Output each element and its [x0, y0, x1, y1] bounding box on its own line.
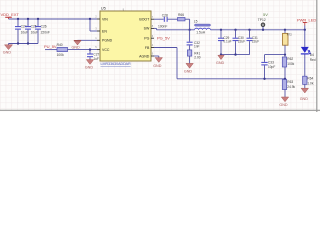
pin SW: [151, 27, 154, 29]
sheet background: [0, 0, 320, 112]
regulator IC U5: [95, 5, 154, 66]
LED D4: [301, 47, 316, 62]
capacitor C31: [247, 30, 260, 55]
wire VCC right: [68, 49, 98, 51]
svg-text:GND: GND: [216, 61, 225, 65]
wire PGND: [78, 39, 98, 41]
sheet border right: [316, 0, 318, 112]
node C25 top: [27, 18, 29, 20]
wire to C33: [265, 54, 286, 56]
svg-text:TP12: TP12: [258, 18, 266, 22]
svg-text:1uF: 1uF: [93, 57, 99, 61]
svg-text:GND: GND: [72, 46, 81, 50]
node C29: [220, 29, 222, 31]
wire FB route: [154, 47, 177, 49]
svg-text:22uF: 22uF: [238, 40, 245, 44]
svg-text:EN: EN: [102, 29, 107, 33]
svg-text:LMR33630ADDAR: LMR33630ADDAR: [101, 62, 132, 66]
pin VCC: [97, 49, 100, 51]
wire SW: [154, 27, 157, 29]
svg-text:R66: R66: [178, 13, 184, 17]
capacitor C29: [218, 30, 232, 55]
capacitor C33: [261, 55, 275, 79]
svg-text:VCC: VCC: [102, 48, 110, 52]
ground input: [3, 44, 13, 55]
svg-text:1.0k: 1.0k: [307, 82, 313, 86]
svg-text:5V: 5V: [263, 12, 268, 17]
node EN tap: [89, 18, 91, 20]
svg-text:C28: C28: [162, 14, 168, 18]
svg-text:2.00: 2.00: [194, 55, 200, 59]
node C33 / FB wire: [263, 78, 265, 80]
svg-text:C26: C26: [41, 25, 47, 29]
resistor R63: [282, 80, 295, 98]
wire bottom bus: [9, 43, 39, 45]
power port VDD_EXT: [1, 12, 20, 19]
svg-text:R40: R40: [57, 43, 63, 47]
pin PGND: [97, 39, 100, 41]
svg-text:GND: GND: [279, 103, 288, 107]
svg-text:BOOT: BOOT: [139, 18, 150, 22]
svg-text:R63: R63: [287, 80, 293, 84]
svg-text:Red: Red: [310, 58, 316, 62]
svg-text:PGND: PGND: [102, 39, 113, 43]
svg-text:PG: PG: [144, 37, 149, 41]
svg-text:10pF: 10pF: [268, 65, 275, 69]
node C26 top: [37, 18, 39, 20]
svg-text:220nF: 220nF: [41, 30, 50, 34]
inductor L5: [194, 20, 211, 35]
ground PGND: [72, 41, 82, 50]
svg-text:1nF: 1nF: [194, 45, 200, 49]
svg-text:R62: R62: [287, 57, 293, 61]
svg-text:24.9k: 24.9k: [287, 85, 295, 89]
ground snubber: [184, 63, 193, 73]
svg-text:VDD_EXT: VDD_EXT: [1, 12, 20, 17]
pin AGND: [151, 55, 154, 57]
svg-text:L5: L5: [194, 20, 198, 24]
svg-text:C27: C27: [93, 52, 99, 56]
pin VIN: [97, 18, 100, 20]
svg-text:10uF: 10uF: [21, 30, 29, 34]
svg-text:GND: GND: [153, 64, 162, 68]
sheet border bottom: [0, 109, 320, 111]
testpoint TP12: [258, 12, 268, 31]
ground LED: [300, 88, 309, 101]
svg-text:PU_5V: PU_5V: [44, 44, 57, 49]
svg-text:R72: R72: [287, 32, 292, 36]
wire VIN top bus: [9, 18, 98, 20]
wire VCC left: [45, 49, 57, 51]
wire LED anode: [304, 30, 306, 47]
svg-text:PWR_LED: PWR_LED: [297, 18, 316, 23]
capacitor C27: [87, 50, 99, 62]
svg-text:FB: FB: [145, 46, 150, 50]
pin BOOT: [151, 18, 154, 20]
wire AGND: [154, 55, 159, 57]
svg-text:GND: GND: [300, 97, 309, 101]
node VCC/C27: [89, 48, 91, 50]
ground divider: [279, 97, 288, 107]
node C30: [234, 29, 236, 31]
resistor R62: [282, 57, 294, 80]
snubber resistor R41: [187, 50, 200, 64]
svg-text:U5: U5: [101, 5, 107, 10]
resistor R66 boot: [178, 13, 186, 21]
node LED rail: [304, 29, 306, 31]
pin EN: [97, 30, 100, 32]
resistor R72 yellow: [283, 30, 293, 57]
resistor R64: [303, 76, 314, 88]
wire output caps gnd bus: [221, 54, 250, 56]
ground AGND: [153, 58, 162, 68]
svg-text:SW: SW: [144, 27, 150, 31]
svg-text:100nF: 100nF: [158, 24, 167, 28]
svg-text:10uF: 10uF: [31, 30, 39, 34]
capacitor C26: [35, 19, 50, 44]
ground C27: [85, 60, 94, 70]
resistor R40: [57, 43, 68, 57]
node C31: [248, 29, 250, 31]
svg-text:0.1uF: 0.1uF: [223, 40, 231, 44]
net label PWR_LED: [297, 18, 316, 30]
wire EN tap: [89, 19, 91, 31]
svg-text:GND: GND: [184, 69, 193, 73]
capacitor C28: [158, 14, 168, 29]
svg-text:AGND: AGND: [139, 54, 150, 58]
svg-text:22uF: 22uF: [252, 40, 259, 44]
svg-text:PG_5V: PG_5V: [157, 35, 170, 40]
wire LED cathode: [304, 55, 306, 77]
capacitor C30: [233, 30, 246, 55]
wire BOOT: [154, 18, 164, 20]
pin FB: [151, 47, 154, 49]
svg-text:R64: R64: [307, 77, 313, 81]
svg-text:100k: 100k: [287, 62, 294, 66]
capacitor C24: [15, 19, 28, 44]
snubber capacitor C32: [187, 30, 200, 50]
svg-text:1.5uH: 1.5uH: [196, 31, 205, 35]
svg-text:GND: GND: [85, 66, 94, 70]
pin PG: [151, 37, 154, 39]
svg-text:VIN: VIN: [102, 17, 108, 21]
ground output caps: [216, 53, 225, 64]
wire VOUT rail: [211, 29, 305, 31]
wire boot to SW: [185, 18, 190, 20]
svg-text:GND: GND: [3, 51, 12, 55]
node divider top: [284, 29, 286, 31]
svg-text:100k: 100k: [57, 53, 65, 57]
node FB divider: [284, 78, 286, 80]
svg-text:D4: D4: [310, 53, 314, 57]
node C24 top: [17, 18, 19, 20]
capacitor C25: [25, 19, 38, 44]
